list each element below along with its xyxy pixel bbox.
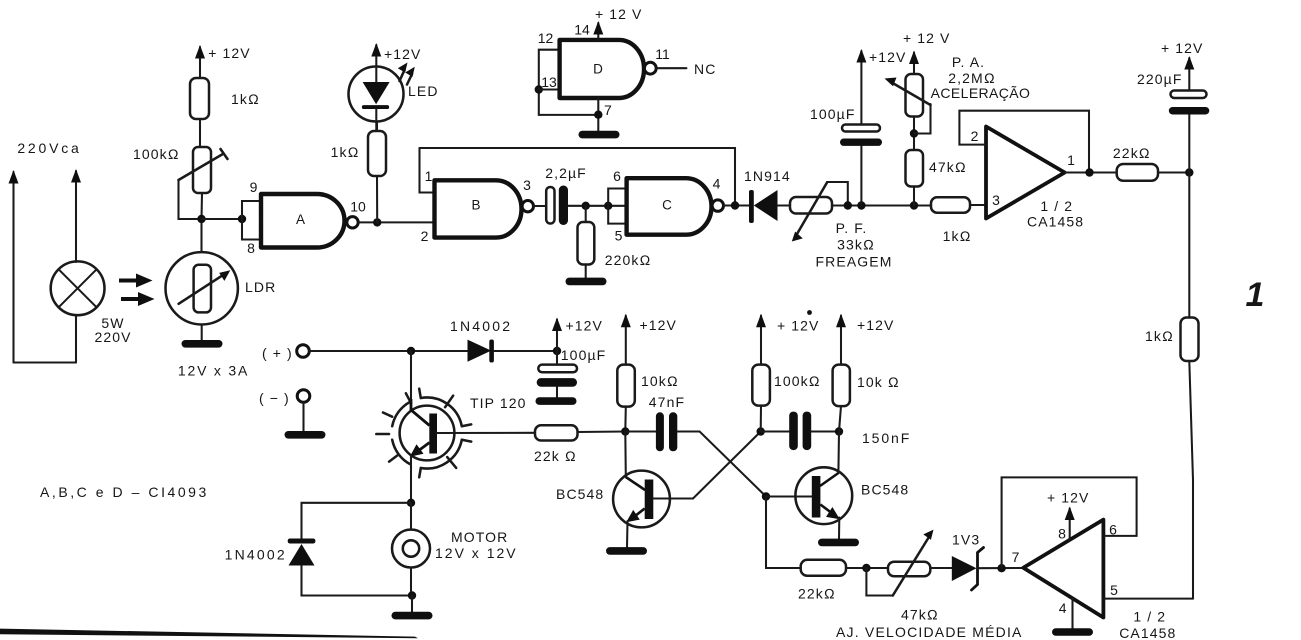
wire P1 wiper to node (179, 180, 202, 219)
node feedback join (1085, 168, 1093, 176)
svg-text:47kΩ: 47kΩ (901, 607, 939, 623)
wire node to ground (411, 596, 413, 613)
ground under motor (392, 612, 433, 620)
svg-text:FREAGEM: FREAGEM (816, 254, 893, 270)
svg-text:NC: NC (694, 61, 716, 77)
svg-text:7: 7 (604, 102, 612, 118)
wire lamp top lead with arrow (71, 169, 81, 262)
svg-text:+ 12V: + 12V (1047, 490, 1089, 506)
node pin13 tie (535, 85, 543, 93)
wire R5 to pin 3 (970, 204, 986, 206)
transistor Q3 BC548 (right, mirrored) (766, 432, 852, 540)
svg-text:6: 6 (1109, 522, 1117, 538)
node Q3 base (762, 492, 770, 500)
resistor R2 1k (368, 131, 386, 176)
pot P3 wiper arrow (885, 78, 931, 134)
wire R6 to right rail (1158, 171, 1189, 173)
node 100uF branch (857, 201, 865, 209)
svg-text:9: 9 (250, 179, 258, 195)
LED D1 (349, 67, 404, 132)
resistor R9 10k (617, 365, 635, 407)
capacitor C2 100uF (840, 125, 882, 146)
svg-text:220Vca: 220Vca (17, 140, 81, 156)
wire node to C6 (761, 430, 789, 432)
lamp LP1 5W 220V (51, 261, 105, 315)
node 220k branch (582, 202, 590, 210)
node pin 7 (594, 111, 602, 119)
svg-text:100kΩ: 100kΩ (774, 373, 821, 389)
wire diode to +12V node (494, 350, 557, 352)
svg-text:4: 4 (713, 176, 721, 192)
svg-text:3: 3 (992, 192, 1000, 208)
svg-text:+12V: +12V (869, 49, 907, 65)
wire lamp bottom lead (75, 315, 77, 363)
zener D5 1V3 (952, 548, 984, 591)
wire node up to C3 (1188, 115, 1190, 173)
svg-text:7: 7 (1012, 549, 1020, 565)
svg-text:+12V: +12V (566, 318, 604, 334)
node feedback join pin 7 (997, 564, 1005, 572)
svg-text:1kΩ: 1kΩ (1145, 328, 1174, 344)
resistor R1 1k (190, 78, 209, 119)
capacitor C3 220uF (1169, 91, 1210, 115)
wire flyback bottom loop (302, 566, 414, 596)
wire LDR bottom to ground (201, 325, 203, 342)
pin 6 feedback loop (1002, 477, 1137, 568)
svg-text:12V x 3A: 12V x 3A (178, 363, 249, 379)
wire R4 to pot P3 (913, 117, 915, 151)
svg-text:12: 12 (538, 30, 554, 46)
node +12V / 100uF (553, 347, 561, 355)
wire R8 to flipflop node (578, 430, 626, 433)
wire R10 to node (760, 406, 762, 432)
wire pin 13 stub (539, 88, 560, 90)
+12V arrow (552, 318, 562, 352)
svg-text:1kΩ: 1kΩ (943, 228, 972, 244)
svg-text:47nF: 47nF (649, 394, 685, 410)
svg-text:150nF: 150nF (862, 430, 911, 446)
node feedback join (731, 201, 739, 209)
svg-text:10k Ω: 10k Ω (857, 374, 900, 390)
ground under C4 (536, 397, 577, 405)
NAND gate B (435, 180, 534, 237)
wire base to R8 (437, 432, 535, 434)
svg-text:4: 4 (1059, 600, 1067, 616)
LDR (166, 252, 238, 324)
wire node to gate A inputs (202, 218, 243, 220)
motor M1 (392, 530, 430, 568)
svg-text:220kΩ: 220kΩ (605, 252, 652, 268)
svg-text:100µF: 100µF (561, 347, 606, 363)
svg-text:100µF: 100µF (810, 106, 855, 122)
+12V arrow above LED (371, 43, 381, 67)
svg-text:2,2µF: 2,2µF (545, 165, 587, 181)
page-edge mark bottom left (0, 629, 418, 639)
svg-text:+12V: +12V (640, 317, 678, 333)
ground gate D (579, 131, 620, 139)
feedback bracket to gate B pin 1 (420, 148, 435, 193)
svg-text:100kΩ: 100kΩ (133, 146, 180, 162)
pin 5 wire to right rail (1103, 598, 1193, 600)
svg-text:1: 1 (425, 168, 433, 184)
gate C tied-input bracket (608, 189, 626, 224)
node at gate A bracket (238, 215, 246, 223)
svg-text:BC548: BC548 (861, 482, 909, 498)
wire node to flyback branch (302, 503, 412, 539)
svg-text:10kΩ: 10kΩ (641, 373, 679, 389)
svg-text:A: A (296, 212, 305, 227)
+12V arrow top-left (195, 45, 205, 78)
resistor R12 22k (801, 560, 846, 576)
svg-text:C: C (662, 198, 672, 213)
wire emitter down to node (410, 466, 412, 503)
node Q3 collector / 10k (835, 427, 843, 435)
svg-text:1N4002: 1N4002 (450, 318, 512, 334)
svg-text:22k Ω: 22k Ω (534, 448, 577, 464)
svg-text:( + ): ( + ) (262, 345, 293, 361)
svg-text:33kΩ: 33kΩ (837, 237, 875, 253)
wire gate C out to diode (724, 204, 750, 206)
svg-text:LDR: LDR (245, 279, 276, 295)
feedback wire top run to gate C output node (420, 148, 736, 206)
node LED branch (373, 218, 381, 226)
svg-text:1V3: 1V3 (952, 532, 980, 548)
+12V arrow above C2 (856, 49, 866, 125)
svg-text:13: 13 (541, 74, 557, 90)
ground under LDR (182, 340, 223, 348)
wire rail upper (1188, 173, 1190, 318)
resistor R8 22k (535, 425, 578, 440)
svg-text:CA1458: CA1458 (1027, 214, 1084, 230)
wire R2 to LED (376, 123, 378, 132)
diode D4 1N4002 (flyback, cathode up) (288, 539, 316, 566)
svg-text:1kΩ: 1kΩ (331, 144, 360, 160)
svg-text:14: 14 (574, 22, 590, 38)
svg-text:AJ. VELOCIDADE MÉDIA: AJ. VELOCIDADE MÉDIA (836, 624, 1023, 640)
wire P4 to zener (930, 567, 952, 569)
node right rail (1185, 168, 1193, 176)
resistor R11 10k (833, 365, 850, 407)
svg-text:47kΩ: 47kΩ (929, 159, 967, 175)
svg-text:2: 2 (421, 228, 429, 244)
NAND gate A (CI4093) (261, 194, 358, 248)
svg-text:1N914: 1N914 (744, 168, 791, 184)
NAND gate C (627, 178, 724, 235)
main wire P2 to op-amp input resistor (832, 204, 931, 206)
wire node down to R3 (585, 206, 587, 222)
wire gate A output to gate B input (358, 221, 434, 223)
svg-text:A,B,C e D – CI4093: A,B,C e D – CI4093 (40, 484, 209, 500)
diode D2 1N914 (cathode left) (749, 190, 778, 223)
svg-text:+12V: +12V (857, 317, 895, 333)
transistor Q1 TIP120 (376, 389, 471, 478)
svg-text:1 / 2: 1 / 2 (1040, 198, 1073, 214)
wire C1 to gate C inputs (568, 205, 627, 207)
node Q2 collector (621, 427, 629, 435)
svg-text:22kΩ: 22kΩ (1113, 145, 1151, 161)
ground under Q3 (818, 539, 859, 547)
svg-text:CA1458: CA1458 (1119, 625, 1176, 640)
ground at (-) (285, 431, 326, 439)
svg-text:B: B (471, 198, 480, 213)
capacitor C4 100uF to ground (537, 351, 577, 397)
+12V arrow right 10k (836, 314, 846, 365)
wire AC left rail with arrow (9, 170, 19, 363)
wire P1 bottom to node (200, 193, 203, 219)
transistor Q2 BC548 (left) (613, 432, 693, 548)
wire node up to R4 47k (913, 187, 915, 206)
svg-text:+12V: +12V (384, 46, 422, 62)
NAND gate D (560, 40, 657, 98)
wire R11 to node (839, 406, 841, 432)
+12V arrow (1184, 56, 1194, 91)
svg-text:8: 8 (247, 240, 255, 256)
wire R9 to node (624, 407, 627, 432)
node emitter / motor / flyback (407, 499, 415, 507)
pot P4 wiper arrow AJ. VELOCIDADE (866, 530, 933, 596)
node junction P1/LDR (197, 215, 205, 223)
svg-text:3: 3 (523, 177, 531, 193)
svg-text:220µF: 220µF (1137, 71, 1182, 87)
svg-text:D: D (593, 62, 603, 77)
node P3 wiper join (910, 129, 918, 137)
resistor R4 47k (906, 150, 924, 187)
svg-text:+ 12V: + 12V (777, 318, 819, 334)
wire R3 to ground (585, 265, 587, 279)
+12V arrow 100k (756, 314, 766, 365)
svg-text:1kΩ: 1kΩ (231, 91, 260, 107)
node 47k branch (910, 201, 918, 209)
wire C5 to cross diagonal (677, 432, 766, 497)
svg-text:+ 12 V: + 12 V (595, 6, 642, 22)
LED light rays (398, 63, 415, 85)
wire C6 to node (811, 430, 839, 432)
ground under Q2 (606, 547, 647, 555)
ink speck (807, 310, 812, 315)
svg-text:1 / 2: 1 / 2 (1133, 609, 1166, 625)
wire (+) to diode (309, 350, 467, 352)
svg-text:22kΩ: 22kΩ (798, 586, 836, 602)
svg-text:BC548: BC548 (556, 486, 604, 502)
wire LDR top to node (200, 219, 202, 252)
node motor/flyback (408, 591, 416, 599)
pin 11 output wire (656, 67, 686, 69)
wire motor bottom (410, 568, 412, 596)
svg-text:LED: LED (408, 83, 439, 99)
svg-text:+ 12V: + 12V (208, 45, 250, 61)
capacitor C6 150nF (789, 412, 811, 451)
gate D tied-input bracket (539, 50, 599, 115)
svg-text:+ 12 V: + 12 V (903, 30, 950, 46)
pin 8 +12V arrow (1065, 507, 1075, 540)
svg-text:220V: 220V (94, 329, 131, 345)
gate A tied-input bracket (242, 201, 261, 240)
light arrows from lamp to LDR (119, 274, 155, 307)
pot P2 33k FREAGEM body (790, 197, 832, 214)
op-amp U1a triangle (986, 127, 1065, 219)
svg-text:+ 12V: + 12V (1161, 40, 1203, 56)
wire Q3 base down to R12 (766, 497, 801, 569)
node P2 wiper (844, 201, 852, 209)
pin 14 +12V arrow (593, 21, 603, 40)
capacitor C5 47nF (656, 412, 677, 451)
wire motor top (410, 503, 412, 530)
node gate C bracket (604, 202, 612, 210)
pot P2 wiper arrow (792, 182, 848, 242)
pot P3 2,2M body (906, 74, 924, 117)
wire gate B out to C1 (534, 205, 547, 207)
wire Q2 base diagonal to 100k node (693, 432, 761, 499)
capacitor C1 2,2uF (546, 186, 568, 226)
svg-text:1: 1 (1246, 276, 1265, 314)
wire rail lower (1189, 361, 1193, 599)
svg-text:( − ): ( − ) (259, 390, 290, 406)
svg-text:TIP 120: TIP 120 (470, 395, 526, 411)
resistor R3 220k (578, 222, 595, 265)
pot P1 100k body (193, 147, 211, 193)
node P4 wiper (862, 564, 870, 572)
wire (-) to ground (302, 402, 304, 431)
pin 4 wire to ground (1071, 598, 1073, 628)
svg-text:8: 8 (1058, 526, 1066, 542)
wire output to R6 (1065, 171, 1117, 173)
pin 7 wire to ground (597, 98, 599, 131)
resistor R10 100k (752, 365, 770, 406)
svg-text:1N4002: 1N4002 (225, 547, 287, 563)
svg-text:P. A.: P. A. (952, 54, 985, 70)
terminal (-) (297, 390, 310, 403)
wire zener to op-amp pin 7 (978, 567, 1024, 569)
wire node up to C2 (860, 146, 862, 206)
diode D3 1N4002 (468, 340, 494, 363)
wire R12 to pot P4 (846, 567, 888, 569)
svg-text:5: 5 (1110, 582, 1118, 598)
+12V arrow left 10k (621, 314, 631, 365)
wire AC bottom loop (14, 361, 77, 363)
svg-text:2: 2 (971, 128, 979, 144)
wire node to C5 (625, 430, 656, 432)
node TIP120 collector branch (407, 347, 415, 355)
pot P1 wiper diagonal with end bar (179, 149, 228, 180)
wire node up to R2 (376, 176, 378, 222)
svg-text:5: 5 (615, 228, 623, 244)
wire diode to pot P2 (778, 204, 791, 206)
svg-text:10: 10 (350, 199, 366, 215)
node 100k / C6 (757, 427, 765, 435)
svg-text:ACELERAÇÃO: ACELERAÇÃO (931, 85, 1031, 101)
resistor R5 1k to pin 3 (931, 197, 970, 212)
ground op-amp pin 4 (1052, 628, 1093, 636)
ground under R3 (566, 278, 607, 286)
pot P4 47k body (888, 562, 930, 577)
resistor R7 1k (1181, 318, 1199, 362)
svg-text:11: 11 (655, 46, 670, 62)
svg-text:12V x 12V: 12V x 12V (435, 545, 518, 561)
pin 2 feedback loop (959, 111, 1089, 173)
+12V arrow above P3 (909, 51, 919, 75)
terminal (+) (297, 345, 310, 358)
svg-text:6: 6 (613, 168, 621, 184)
svg-text:2,2MΩ: 2,2MΩ (948, 70, 995, 86)
wire collector from node (410, 351, 412, 399)
resistor R6 22k (1117, 164, 1158, 181)
wire R1 to P1 (199, 119, 201, 147)
svg-text:P. F.: P. F. (836, 220, 868, 236)
svg-text:1: 1 (1067, 152, 1075, 168)
svg-text:MOTOR: MOTOR (451, 529, 508, 545)
